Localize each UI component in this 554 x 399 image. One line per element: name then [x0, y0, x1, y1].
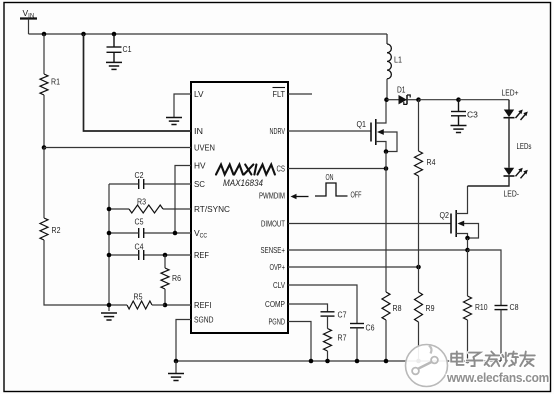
wire C1 to ground	[113, 52, 115, 62]
wire SC right	[144, 183, 191, 185]
wire R9 bottom	[418, 322, 420, 361]
wire L1 bottom	[386, 79, 388, 100]
pin label COMP	[265, 299, 285, 309]
pin label UVEN	[194, 143, 215, 153]
wire R6 bottom	[164, 289, 166, 305]
svg-text:C1: C1	[123, 44, 132, 54]
node CS	[384, 166, 389, 171]
svg-text:COMP: COMP	[265, 299, 285, 309]
wire left rail	[108, 184, 110, 311]
pin label OVP+	[270, 262, 286, 272]
wire R6 top	[164, 255, 166, 268]
label C8	[510, 302, 519, 312]
svg-text:C5: C5	[135, 217, 144, 227]
wire R10 top	[467, 250, 469, 296]
wire OVP+	[288, 266, 419, 268]
label C3	[467, 110, 478, 120]
watermark url www.elecfans.com	[446, 370, 549, 385]
wire SGND	[176, 320, 191, 362]
resistor R10	[464, 296, 472, 320]
node rail-RT	[107, 207, 112, 212]
ground bus	[168, 374, 184, 381]
svg-text:R4: R4	[427, 157, 436, 167]
resistor R4	[415, 151, 423, 176]
pin label NDRV	[270, 126, 286, 136]
label R3	[137, 197, 146, 207]
ground left rail	[101, 313, 117, 320]
capacitor C6	[350, 324, 364, 328]
wire to LED+	[459, 99, 510, 101]
node rail-REFI	[107, 303, 112, 308]
LED D2	[504, 110, 528, 121]
svg-text:LEDs: LEDs	[517, 141, 532, 151]
capacitor C1	[107, 47, 122, 52]
label C4	[135, 242, 144, 252]
wire ground bus	[176, 360, 501, 362]
wire R2 bottom	[44, 240, 109, 305]
node REFI-R6	[163, 303, 168, 308]
svg-text:SGND: SGND	[194, 315, 214, 325]
node top-R1	[42, 32, 47, 37]
svg-text:LED-: LED-	[504, 189, 520, 199]
wire VCC left	[109, 232, 139, 234]
op-amp-style IC U1 MAX16834 box	[191, 82, 288, 333]
ground C3	[451, 126, 467, 133]
label R8	[393, 303, 402, 313]
node Q1 source	[384, 149, 389, 154]
wire R8 bottom	[385, 320, 387, 361]
pin label PWMDIM	[259, 191, 285, 201]
node bus-R9	[416, 359, 421, 364]
wire REFI R5-R6	[152, 304, 165, 306]
pin label RT/SYNC	[194, 204, 230, 214]
node bus-R8	[384, 359, 389, 364]
resistor R5	[127, 301, 152, 309]
wire top rail to L1	[386, 34, 388, 44]
capacitor C5	[139, 228, 144, 238]
svg-text:CS: CS	[277, 164, 286, 174]
pin label LV	[194, 89, 204, 99]
wire R2 top	[43, 148, 45, 219]
ground C1	[106, 62, 122, 69]
watermark logo circle	[406, 345, 448, 387]
wire R1 top	[43, 34, 45, 74]
pin label PGND	[269, 317, 286, 327]
wire REFI right	[165, 304, 191, 306]
node Q2 source	[465, 236, 470, 241]
wire R7 bottom	[327, 351, 329, 361]
node L1-Q1-D1	[384, 97, 389, 102]
pin label FLT	[273, 88, 286, 100]
svg-text:REF: REF	[194, 250, 209, 260]
wire NDRV	[288, 130, 371, 132]
wire bus ground stem	[175, 361, 177, 373]
svg-text:REFI: REFI	[194, 300, 212, 310]
transistor Q2	[451, 186, 479, 238]
wire REFI left	[109, 304, 127, 306]
label LED+	[502, 88, 519, 98]
pin label SGND	[194, 315, 214, 325]
pin label REF	[194, 250, 209, 260]
pin label CLV	[273, 280, 285, 290]
svg-text:www.elecfans.com: www.elecfans.com	[446, 370, 549, 385]
node rail-VCC	[107, 231, 112, 236]
pin label SENSE+	[261, 245, 286, 255]
resistor R7	[324, 329, 332, 352]
svg-text:DIMOUT: DIMOUT	[261, 219, 285, 229]
svg-text:FLT: FLT	[273, 89, 286, 99]
svg-text:LED+: LED+	[502, 88, 519, 98]
label C7	[338, 310, 347, 320]
wire VCC right	[144, 232, 191, 234]
wire C6 bottom	[356, 328, 358, 361]
svg-text:ON: ON	[326, 173, 334, 182]
node bus-R10	[465, 359, 470, 364]
label C6	[366, 323, 375, 333]
pin label DIMOUT	[261, 219, 285, 229]
svg-text:NDRV: NDRV	[270, 126, 286, 136]
label L1	[394, 55, 402, 65]
node bus-C6	[355, 359, 360, 364]
node top-IN	[81, 32, 86, 37]
wire D1 cathode	[407, 99, 419, 101]
transistor Q1	[371, 102, 397, 152]
wire R10 bottom	[467, 320, 469, 361]
wire R1 bottom	[43, 95, 45, 148]
inductor L1	[387, 44, 391, 79]
svg-text:SC: SC	[194, 179, 205, 189]
label OFF	[351, 191, 362, 200]
wire DIMOUT	[288, 223, 451, 225]
label C5	[135, 217, 144, 227]
wire C3 to ground	[458, 116, 460, 125]
wire SC left	[109, 183, 139, 185]
resistor R3	[129, 205, 163, 213]
svg-text:C4: C4	[135, 242, 144, 252]
watermark text dianzifashaoyou	[451, 352, 535, 367]
svg-text:R10: R10	[475, 302, 488, 312]
capacitor C2	[139, 179, 144, 189]
resistor R8	[382, 292, 390, 320]
node bus-SGND	[174, 359, 179, 364]
svg-text:R9: R9	[426, 303, 435, 313]
wire C7-R7	[327, 316, 329, 328]
wire C1 stem	[113, 34, 115, 47]
svg-text:R6: R6	[172, 273, 181, 283]
svg-text:C6: C6	[366, 323, 375, 333]
node bus-PGND	[309, 359, 314, 364]
svg-text:R2: R2	[52, 225, 61, 235]
pin label CS	[277, 164, 286, 174]
PWMDIM arrow	[291, 194, 309, 200]
wire R4 bottom	[418, 176, 420, 267]
wire LED+ down	[508, 100, 510, 110]
node D1-R4	[416, 97, 421, 102]
pin label VCC	[194, 228, 208, 240]
svg-text:PWMDIM: PWMDIM	[259, 191, 285, 201]
node OVP	[416, 265, 421, 270]
wire R9 top	[418, 267, 420, 292]
pin label SC	[194, 179, 205, 189]
label ON	[326, 173, 334, 182]
label R6	[172, 273, 181, 283]
wire LED1-LED2	[508, 118, 510, 168]
label R9	[426, 303, 435, 313]
svg-text:CLV: CLV	[273, 280, 285, 290]
svg-text:UVEN: UVEN	[194, 143, 215, 153]
capacitor C8	[495, 306, 508, 310]
svg-text:SENSE+: SENSE+	[261, 245, 286, 255]
svg-text:R8: R8	[393, 303, 402, 313]
resistor R2	[40, 218, 48, 240]
node rail-REF	[107, 253, 112, 258]
capacitor C7	[321, 312, 335, 316]
wire top rail	[29, 33, 388, 35]
label LED-	[504, 189, 520, 199]
wire to C3	[419, 99, 459, 101]
svg-text:LV: LV	[194, 89, 204, 99]
node REF-R6	[163, 253, 168, 258]
wire SENSE to C8	[468, 250, 502, 306]
resistor R9	[415, 292, 423, 322]
svg-text:R1: R1	[51, 77, 60, 87]
wire VIN down	[28, 19, 30, 35]
wire C8 bottom	[500, 310, 502, 361]
wire CS	[288, 168, 386, 170]
ON/OFF waveform	[315, 183, 348, 196]
svg-text:PGND: PGND	[269, 317, 286, 327]
wire Q2 source down	[467, 238, 469, 250]
MAXIM logo	[216, 165, 275, 175]
label LEDs	[517, 141, 532, 151]
wire R4 top	[418, 100, 420, 151]
svg-text:C8: C8	[510, 302, 519, 312]
resistor R6	[161, 268, 169, 289]
label R5	[134, 292, 143, 302]
VIN terminal	[20, 8, 37, 20]
wire UVEN	[44, 147, 191, 149]
svg-text:R7: R7	[338, 333, 347, 343]
wire SENSE+	[288, 249, 468, 251]
svg-text:RT/SYNC: RT/SYNC	[194, 204, 230, 214]
svg-text:Q1: Q1	[357, 119, 367, 129]
diode D1 (schottky)	[399, 95, 411, 104]
wire RT/SYNC left	[109, 208, 129, 210]
ground LV	[166, 118, 182, 125]
svg-text:C3: C3	[467, 110, 478, 120]
label R2	[52, 225, 61, 235]
svg-text:Q2: Q2	[440, 210, 450, 220]
node top-C1	[112, 32, 117, 37]
svg-text:IN: IN	[194, 126, 203, 136]
wire LV	[174, 94, 191, 117]
node VCC-HV	[173, 231, 178, 236]
wire REF right	[144, 254, 191, 256]
wire LED- down	[468, 176, 510, 186]
capacitor C4	[139, 250, 144, 260]
pin label IN	[194, 126, 203, 136]
wire FLT stub	[288, 93, 312, 95]
node C3	[456, 97, 461, 102]
resistor R1	[40, 74, 48, 95]
svg-text:R3: R3	[137, 197, 146, 207]
wire COMP	[288, 304, 328, 312]
label R4	[427, 157, 436, 167]
LED D3	[504, 168, 528, 179]
label Q2	[440, 210, 450, 220]
wire PGND	[288, 322, 311, 362]
label C1	[123, 44, 132, 54]
wire IN column	[84, 34, 192, 131]
svg-text:D1: D1	[397, 85, 406, 95]
svg-text:C2: C2	[135, 170, 144, 180]
node bus-R7	[325, 359, 330, 364]
node SENSE-R10	[465, 248, 470, 253]
wire D1 anode	[387, 99, 399, 101]
label R1	[51, 77, 60, 87]
label MAX16834	[223, 178, 263, 188]
node UVEN	[42, 145, 47, 150]
svg-text:R5: R5	[134, 292, 143, 302]
svg-text:OVP+: OVP+	[270, 262, 286, 272]
label R7	[338, 333, 347, 343]
wire RT/SYNC right	[163, 208, 191, 210]
svg-text:MAX16834: MAX16834	[223, 178, 263, 188]
wire CLV	[288, 285, 357, 324]
svg-text:HV: HV	[194, 161, 206, 171]
pin label HV	[194, 161, 206, 171]
svg-text:L1: L1	[394, 55, 402, 65]
label D1	[397, 85, 406, 95]
label R10	[475, 302, 488, 312]
wire C3 stem	[458, 100, 460, 112]
label Q1	[357, 119, 367, 129]
svg-text:OFF: OFF	[351, 191, 362, 200]
wire Q1 source to R8	[385, 152, 387, 293]
capacitor C3	[451, 112, 466, 116]
label C2	[135, 170, 144, 180]
svg-text:C7: C7	[338, 310, 347, 320]
pin label REFI	[194, 300, 212, 310]
wire HV	[175, 166, 191, 234]
wire REF left	[109, 254, 139, 256]
